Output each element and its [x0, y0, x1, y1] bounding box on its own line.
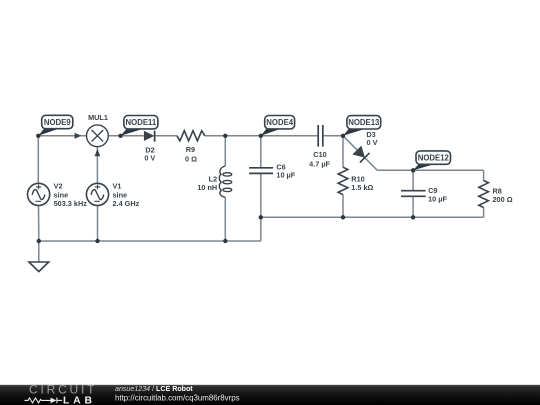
node label NODE11 [121, 116, 158, 136]
svg-text:ansue1234 / LCE Robot: ansue1234 / LCE Robot [115, 385, 193, 393]
node label NODE4 [261, 116, 295, 136]
wire L2 bottom lead [224, 197, 226, 241]
wire V1 bottom to rail [97, 206, 99, 241]
svg-text:503.3 kHz: 503.3 kHz [54, 199, 88, 208]
svg-text:V1: V1 [113, 182, 122, 191]
diode D2 [144, 131, 155, 142]
wire V2 bottom to rail [38, 206, 40, 241]
resistor R9 [177, 131, 205, 141]
capacitor C10 [318, 125, 323, 147]
svg-text:NODE12: NODE12 [418, 153, 450, 162]
svg-text:10 µF: 10 µF [276, 170, 295, 179]
node NODE9 dot [36, 134, 40, 138]
node L2 top junction [223, 134, 227, 138]
svg-text:NODE13: NODE13 [348, 118, 380, 127]
capacitor C6 [249, 168, 273, 174]
wire R10 bottom lead [342, 195, 344, 218]
svg-text:0 V: 0 V [144, 154, 155, 163]
svg-text:C10: C10 [313, 150, 326, 159]
svg-text:4.7 µF: 4.7 µF [309, 160, 330, 169]
wire R8 bottom lead [483, 208, 485, 218]
svg-text:R9: R9 [186, 145, 195, 154]
multiplier MUL1 [87, 125, 109, 147]
wire L2 top lead [224, 136, 226, 166]
svg-text:V2: V2 [54, 182, 63, 191]
wire D2 to R9 [156, 135, 177, 137]
ground [29, 262, 49, 272]
node R10 bottom junction [341, 215, 345, 219]
svg-text:0 Ω: 0 Ω [185, 155, 197, 164]
arrowhead into MUL1 left input [75, 133, 82, 139]
wire C10 to NODE13 [323, 135, 343, 137]
voltage source V2 [27, 183, 49, 205]
resistor R8 [479, 181, 489, 208]
node ground junction [37, 239, 41, 243]
svg-text:MUL1: MUL1 [88, 113, 108, 122]
node L2 bottom junction [223, 239, 227, 243]
node C9 bottom junction [411, 215, 415, 219]
node NODE11 dot [118, 134, 122, 138]
wire NODE9 down to V2 [37, 136, 39, 184]
inductor L2 [219, 166, 231, 197]
svg-text:10 µF: 10 µF [428, 195, 447, 204]
node NODE13 dot [341, 134, 345, 138]
arrowhead into MUL1 bottom input [95, 149, 101, 156]
resistor R10 [338, 167, 348, 194]
wire C6 bottom to bottom rail [260, 174, 262, 241]
svg-text:0 V: 0 V [367, 138, 378, 147]
wire top rail left: NODE9 to MUL1 [38, 135, 86, 137]
capacitor C9 [401, 191, 426, 197]
node V1 bottom junction [95, 239, 99, 243]
svg-text:sine: sine [54, 190, 69, 199]
wire D3 diagonal [343, 136, 377, 171]
wire R8 top lead [483, 170, 485, 180]
wire R10 top lead [342, 136, 344, 167]
wire R9 to C10 [205, 135, 318, 137]
svg-text:LAB: LAB [63, 395, 96, 405]
node label NODE12 [413, 151, 450, 170]
logo resistor-diode icon [25, 398, 63, 404]
svg-text:10 nH: 10 nH [197, 183, 217, 192]
svg-text:NODE11: NODE11 [126, 118, 157, 127]
wire ground lead [38, 241, 40, 262]
wire MUL1 bottom input from V1 [96, 147, 98, 184]
wire NODE4 down to C6 [260, 136, 262, 168]
wire C9 bottom lead [412, 196, 414, 217]
node C6 mid-rail junction [259, 215, 263, 219]
diode D3 [352, 146, 369, 163]
svg-text:http://circuitlab.com/cq3um86r: http://circuitlab.com/cq3um86r8vrps [115, 393, 240, 402]
svg-text:sine: sine [113, 190, 128, 199]
wire D3 out to R8 top [377, 169, 483, 171]
wire C9 top lead [412, 170, 414, 190]
wire right mid rail [261, 216, 484, 218]
wire bottom rail [39, 240, 261, 242]
svg-text:2.4 GHz: 2.4 GHz [113, 199, 140, 208]
svg-text:NODE4: NODE4 [266, 118, 294, 127]
node NODE4 dot [259, 134, 263, 138]
voltage source V1 [86, 183, 108, 205]
wire MUL1 output to D2 [108, 135, 143, 137]
node label NODE9 [38, 115, 73, 136]
svg-text:NODE9: NODE9 [44, 118, 72, 127]
node label NODE13 [343, 116, 381, 136]
svg-text:200 Ω: 200 Ω [493, 195, 513, 204]
svg-text:1.5 kΩ: 1.5 kΩ [351, 183, 373, 192]
node NODE12 dot [411, 168, 415, 172]
